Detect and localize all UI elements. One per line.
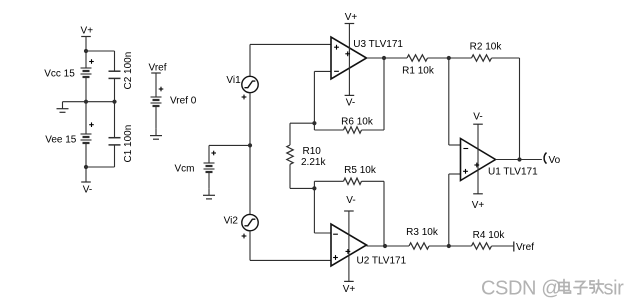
svg-text:V+: V+ [345, 12, 358, 23]
svg-text:V-: V- [346, 195, 355, 206]
svg-text:R10: R10 [303, 146, 322, 157]
svg-text:U2 TLV171: U2 TLV171 [357, 255, 407, 266]
svg-text:U1 TLV171: U1 TLV171 [488, 166, 538, 177]
svg-text:Vi2: Vi2 [224, 216, 239, 227]
svg-text:C2 100n: C2 100n [123, 52, 134, 90]
svg-text:Vee 15: Vee 15 [45, 135, 77, 146]
svg-text:sir: sir [604, 278, 625, 300]
svg-text:CSDN @: CSDN @ [481, 278, 561, 300]
svg-text:R1 10k: R1 10k [402, 66, 435, 77]
svg-text:R2 10k: R2 10k [470, 42, 503, 53]
svg-text:V+: V+ [472, 200, 485, 211]
svg-text:V+: V+ [343, 284, 356, 295]
svg-text:R5 10k: R5 10k [344, 165, 377, 176]
svg-text:U3 TLV171: U3 TLV171 [353, 39, 403, 50]
svg-text:R3 10k: R3 10k [406, 227, 439, 238]
svg-text:Vref 0: Vref 0 [170, 96, 197, 107]
svg-text:Vref: Vref [149, 63, 167, 74]
svg-text:V-: V- [473, 111, 482, 122]
svg-text:Vcm: Vcm [175, 164, 195, 175]
svg-text:V-: V- [346, 98, 355, 109]
svg-text:2.21k: 2.21k [301, 157, 326, 168]
svg-text:R6 10k: R6 10k [341, 117, 374, 128]
svg-text:Vcc 15: Vcc 15 [44, 69, 75, 80]
svg-text:C1 100n: C1 100n [123, 125, 134, 163]
svg-text:V+: V+ [81, 26, 94, 37]
svg-text:R4 10k: R4 10k [473, 230, 506, 241]
svg-text:Vi1: Vi1 [226, 75, 241, 86]
svg-text:Vref: Vref [516, 242, 534, 253]
svg-text:Vo: Vo [549, 155, 561, 166]
svg-text:V-: V- [83, 185, 92, 196]
